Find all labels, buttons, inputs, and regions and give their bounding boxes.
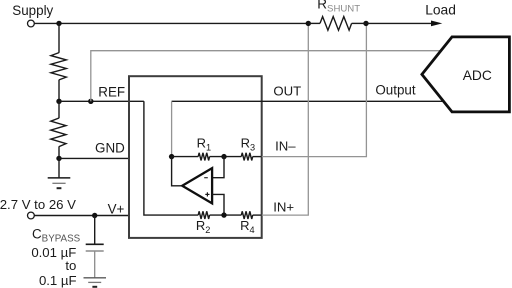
resistor divider upper xyxy=(51,53,66,80)
resistor R3 xyxy=(241,153,252,161)
svg-text:R3: R3 xyxy=(241,135,256,152)
ground symbol divider xyxy=(48,158,71,188)
wire R4 to edge xyxy=(253,214,262,216)
svg-text:R4: R4 xyxy=(240,218,255,235)
terminal V+ (open circle) xyxy=(28,212,35,219)
svg-text:0.1 µF: 0.1 µF xyxy=(39,273,77,288)
wire divider bottom xyxy=(58,146,60,158)
wire divider middle lower xyxy=(58,101,60,118)
wire inverting input xyxy=(212,157,224,178)
capacitor C_BYPASS xyxy=(86,216,104,278)
wire V+ pin xyxy=(34,215,129,217)
wire OUT line xyxy=(172,100,443,102)
node REF junction xyxy=(56,99,61,104)
svg-text:Load: Load xyxy=(425,2,456,17)
wire REF to ADC riser (gray) xyxy=(91,51,441,102)
junction shunt left xyxy=(306,21,311,26)
wire load arrow xyxy=(366,22,432,24)
svg-text:GND: GND xyxy=(95,141,125,156)
resistor R_SHUNT xyxy=(308,17,366,31)
svg-text:R1: R1 xyxy=(197,135,212,152)
wire divider middle upper xyxy=(58,80,60,102)
node GND junction xyxy=(56,156,61,161)
wire R1-R3 xyxy=(210,156,242,158)
svg-text:IN+: IN+ xyxy=(273,199,294,214)
op-amp minus xyxy=(204,177,208,179)
op-amp A1 xyxy=(182,168,212,203)
svg-text:Supply: Supply xyxy=(12,3,53,18)
wire IN- sense (gray) xyxy=(262,23,367,156)
svg-text:CBYPASS: CBYPASS xyxy=(32,227,81,245)
resistor R2 xyxy=(198,211,209,219)
svg-text:R2: R2 xyxy=(196,218,211,235)
wire GND pin xyxy=(59,157,129,159)
arrowhead load xyxy=(431,21,442,27)
ground symbol bypass xyxy=(84,278,107,287)
node noninverting/R2/R4 xyxy=(221,212,226,217)
node feedback/R1 xyxy=(169,154,174,159)
wire R3 to edge xyxy=(253,156,262,158)
resistor divider lower xyxy=(51,118,66,147)
svg-text:RSHUNT: RSHUNT xyxy=(317,0,360,15)
svg-text:OUT: OUT xyxy=(273,84,301,99)
svg-text:V+: V+ xyxy=(108,201,125,216)
junction V+/bypass xyxy=(92,213,97,218)
resistor R1 xyxy=(198,153,209,161)
terminal supply (open circle) xyxy=(28,20,35,27)
wire noninverting input xyxy=(212,194,224,215)
IC body U1 xyxy=(129,76,262,238)
wire op-amp output to node xyxy=(172,157,183,186)
node inverting input xyxy=(221,154,226,159)
svg-text:2.7 V to 26 V: 2.7 V to 26 V xyxy=(0,197,76,212)
svg-text:REF: REF xyxy=(98,85,125,100)
wire supply rail xyxy=(34,22,308,24)
svg-text:to: to xyxy=(65,258,76,273)
junction shunt right xyxy=(363,21,368,26)
wire R1 left lead xyxy=(172,156,199,158)
wire IN+ sense (gray) xyxy=(262,23,309,215)
op-amp plus xyxy=(205,192,209,196)
svg-text:ADC: ADC xyxy=(463,68,492,83)
wire feedback riser (gray) xyxy=(171,101,173,156)
wire R2-R4 xyxy=(210,214,242,216)
resistor R4 xyxy=(241,211,252,219)
svg-text:IN–: IN– xyxy=(275,139,296,154)
junction REF/ADC-sense xyxy=(88,99,93,104)
wire divider top xyxy=(58,23,60,52)
junction supply/divider xyxy=(56,21,61,26)
ADC block xyxy=(422,37,510,112)
wire REF horizontal xyxy=(59,100,144,102)
wire REF internal drop xyxy=(144,101,198,215)
svg-text:Output: Output xyxy=(375,82,415,97)
